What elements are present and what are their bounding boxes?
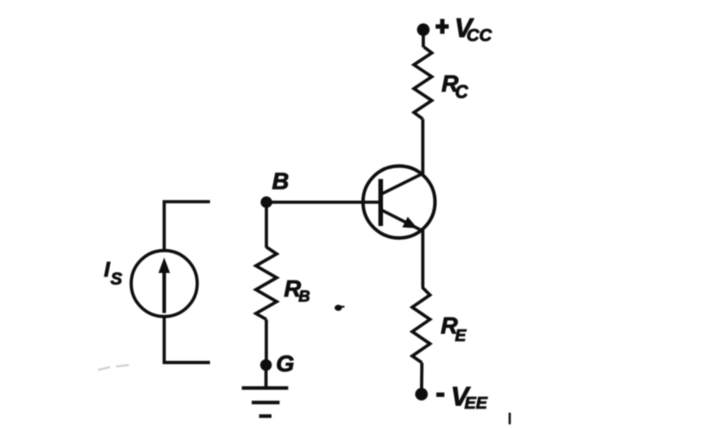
svg-text:G: G bbox=[276, 351, 294, 377]
svg-text:EE: EE bbox=[465, 394, 488, 413]
svg-text:C: C bbox=[455, 82, 469, 102]
svg-text:B: B bbox=[272, 168, 289, 194]
svg-text:CC: CC bbox=[467, 25, 493, 45]
svg-text:B: B bbox=[299, 288, 311, 305]
svg-text:E: E bbox=[455, 327, 467, 345]
svg-text:S: S bbox=[111, 269, 123, 289]
